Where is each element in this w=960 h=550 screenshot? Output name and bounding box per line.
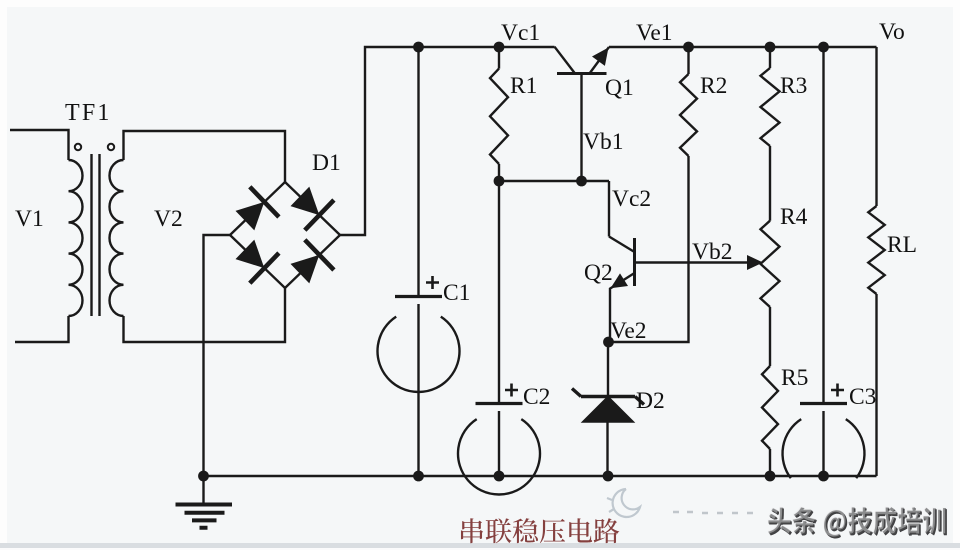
svg-text:C2: C2 bbox=[523, 384, 550, 410]
resistor R3 bbox=[769, 47, 771, 68]
svg-text:R4: R4 bbox=[780, 204, 808, 230]
polarity dot primary bbox=[75, 144, 81, 150]
node ground rail junction bbox=[198, 471, 209, 482]
node Vb1 base bbox=[576, 176, 587, 187]
transistor Q1 collector bbox=[555, 47, 576, 74]
capacitor C1 bottom lead bbox=[417, 304, 419, 476]
svg-text:TF1: TF1 bbox=[65, 100, 112, 126]
capacitor C2 curved plate bbox=[458, 419, 540, 494]
watermark text 头条@技成培训 bbox=[767, 506, 947, 538]
capacitor C1 curved plate bbox=[378, 317, 460, 392]
node C1 top bbox=[413, 42, 424, 53]
bridge diode top-right bbox=[291, 187, 320, 216]
svg-text:R1: R1 bbox=[510, 73, 537, 99]
node Vb1 left bbox=[494, 176, 505, 187]
node R3 top bbox=[765, 42, 776, 53]
capacitor C3 top lead bbox=[822, 47, 824, 402]
svg-text:Vc2: Vc2 bbox=[612, 186, 651, 212]
svg-text:Vo: Vo bbox=[879, 19, 905, 45]
transformer TF1 secondary winding V2 bbox=[109, 160, 123, 316]
node Ve2 bbox=[603, 337, 614, 348]
capacitor C3 curved plate bbox=[783, 419, 865, 478]
transistor Q2 collector bbox=[609, 237, 635, 253]
capacitor C1 plate bbox=[395, 295, 442, 298]
transistor Q1 emitter bbox=[590, 47, 610, 74]
svg-text:C1: C1 bbox=[443, 280, 470, 306]
wire secondary bottom to bridge AC2 bbox=[124, 288, 286, 342]
svg-text:Vc1: Vc1 bbox=[501, 20, 540, 46]
R4 wiper arrow bbox=[747, 255, 763, 270]
capacitor C2 top lead bbox=[498, 181, 500, 402]
wire secondary top to bridge AC1 bbox=[124, 131, 286, 182]
transistor Q2 emitter bbox=[610, 273, 635, 342]
node C2 bottom bbox=[494, 471, 505, 482]
bridge diode bottom-right bbox=[291, 255, 320, 284]
wire primary top lead bbox=[10, 130, 69, 160]
transformer core bbox=[90, 154, 92, 316]
svg-text:R2: R2 bbox=[700, 73, 727, 99]
node D2 bottom bbox=[603, 471, 614, 482]
watermark dashes bbox=[673, 512, 753, 513]
svg-text:V1: V1 bbox=[15, 206, 44, 232]
polarity dot secondary bbox=[108, 144, 114, 150]
load resistor RL bbox=[875, 47, 877, 206]
wire ground rail bbox=[204, 475, 877, 477]
resistor R5 bbox=[769, 307, 771, 366]
bridge rectifier D1 diamond bbox=[230, 182, 340, 288]
wire bridge negative to ground rail bbox=[204, 235, 231, 476]
ground symbol bbox=[202, 476, 204, 504]
capacitor C2 plate bbox=[476, 402, 523, 405]
svg-text:Vb2: Vb2 bbox=[692, 239, 732, 265]
capacitor C3 plate bbox=[800, 402, 847, 405]
resistor R1 bbox=[498, 47, 500, 69]
wire top rail Ve1/Vo bbox=[609, 46, 877, 48]
resistor R2 bbox=[687, 47, 689, 74]
svg-text:Ve2: Ve2 bbox=[610, 318, 647, 344]
transistor Q1 emitter arrow bbox=[592, 48, 609, 66]
svg-text:Ve1: Ve1 bbox=[636, 20, 673, 46]
svg-text:RL: RL bbox=[887, 232, 917, 258]
svg-text:R5: R5 bbox=[781, 365, 808, 391]
watermark moon doodle bbox=[607, 489, 640, 517]
node C3 top bbox=[818, 42, 829, 53]
svg-text:C3: C3 bbox=[849, 384, 876, 410]
capacitor C1 top lead bbox=[417, 47, 419, 295]
transistor Q1 bar bbox=[557, 72, 607, 75]
wire Vc2 vertical bbox=[608, 181, 610, 237]
node C3 bottom bbox=[818, 471, 829, 482]
svg-text:Vb1: Vb1 bbox=[583, 129, 623, 155]
bridge diode top-left bbox=[236, 202, 265, 231]
svg-text:D1: D1 bbox=[312, 150, 341, 176]
capacitor C2 plus sign bbox=[505, 384, 518, 397]
zener diode D2 bbox=[572, 389, 644, 405]
svg-text:Q1: Q1 bbox=[605, 75, 634, 101]
bridge diode bottom-left bbox=[236, 240, 265, 269]
red caption 串联稳压电路 bbox=[461, 518, 619, 543]
transformer TF1 primary winding V1 bbox=[69, 160, 83, 316]
capacitor C3 bottom lead bbox=[822, 411, 824, 476]
potentiometer R4 bbox=[769, 146, 771, 221]
svg-text:Q2: Q2 bbox=[584, 260, 613, 286]
capacitor C1 plus sign bbox=[426, 276, 439, 289]
svg-text:R3: R3 bbox=[780, 73, 807, 99]
capacitor C3 plus sign bbox=[831, 384, 844, 397]
transistor Q2 emitter arrow bbox=[611, 273, 629, 288]
transistor Q2 base lead to R4 wiper bbox=[635, 261, 750, 263]
wire primary bottom lead bbox=[15, 316, 69, 342]
transistor Q1 base lead bbox=[580, 74, 582, 182]
svg-text:D2: D2 bbox=[636, 388, 665, 414]
node C1 bottom bbox=[413, 471, 424, 482]
svg-text:V2: V2 bbox=[154, 206, 183, 232]
node R1 top bbox=[494, 42, 505, 53]
wire Vb1 horizontal bbox=[499, 180, 609, 182]
transistor Q2 bar bbox=[633, 238, 636, 286]
node R5 bottom bbox=[765, 471, 776, 482]
node R2 top bbox=[683, 42, 694, 53]
wire bridge positive to top rail bbox=[340, 47, 555, 235]
capacitor C2 bottom lead bbox=[498, 411, 500, 476]
zener D2 leads bbox=[607, 342, 609, 397]
